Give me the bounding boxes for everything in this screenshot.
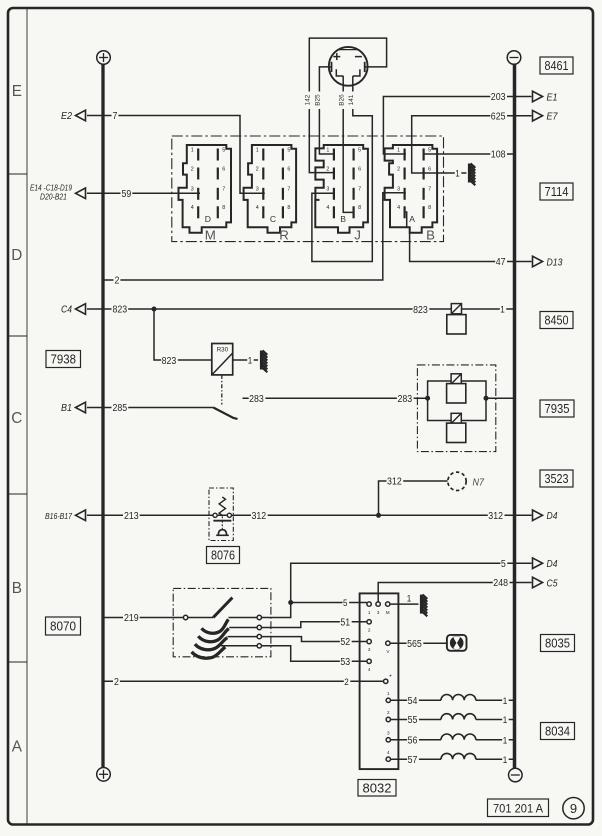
- heater control unit 8032: [360, 593, 399, 769]
- svg-text:4: 4: [191, 205, 194, 211]
- svg-text:M: M: [205, 227, 216, 242]
- svg-text:8461: 8461: [545, 58, 569, 73]
- lamp unit (top circle with + and -): [329, 47, 368, 86]
- wire B25 (from + contact to J pin 1): [319, 67, 335, 154]
- switch 8070 output contacts: [257, 615, 261, 619]
- svg-text:8076: 8076: [211, 548, 235, 563]
- terminal arrow C5: [533, 577, 543, 588]
- wire 47 : connector B to D13: [410, 233, 532, 262]
- svg-text:312: 312: [387, 477, 402, 488]
- svg-text:51: 51: [340, 617, 350, 628]
- svg-text:7: 7: [428, 187, 431, 193]
- svg-text:3: 3: [256, 187, 259, 193]
- svg-text:1: 1: [503, 696, 508, 706]
- label B26: [340, 92, 347, 110]
- svg-text:5: 5: [222, 147, 225, 153]
- svg-text:57: 57: [408, 755, 418, 766]
- wire 53: [262, 646, 367, 662]
- ground at 8032: [420, 595, 423, 614]
- svg-text:2: 2: [397, 166, 400, 172]
- svg-text:2: 2: [256, 166, 259, 172]
- terminal arrow E1: [533, 91, 543, 102]
- terminal arrow E7: [533, 110, 543, 121]
- svg-text:5: 5: [358, 147, 361, 153]
- svg-text:8: 8: [428, 205, 431, 211]
- wire : 7935 to bus: [486, 397, 515, 399]
- ref box 8461: [540, 57, 573, 74]
- svg-text:N7: N7: [473, 478, 485, 489]
- 8032 pin V: [386, 641, 390, 645]
- junction on 312: [376, 513, 381, 518]
- svg-text:B1: B1: [61, 403, 72, 414]
- diagram number box: [488, 799, 549, 817]
- svg-text:2: 2: [368, 628, 371, 633]
- svg-text:R: R: [279, 227, 289, 242]
- svg-text:6: 6: [287, 166, 290, 172]
- terminal arrow C4: [76, 304, 86, 315]
- svg-text:E2: E2: [61, 111, 72, 122]
- svg-text:565: 565: [407, 639, 422, 650]
- svg-text:8: 8: [287, 205, 290, 211]
- svg-text:J: J: [354, 227, 361, 242]
- wire 219 : bus to switch 8070: [103, 617, 183, 619]
- terminal arrow D4 (wire 312): [533, 510, 543, 521]
- terminal arrow E2: [76, 110, 86, 121]
- svg-text:D20-B21: D20-B21: [40, 192, 67, 201]
- svg-text:R30: R30: [217, 347, 229, 354]
- relay actuating link (dash-dot): [221, 375, 223, 405]
- ground at connector B pin 6: [468, 164, 471, 183]
- svg-text:3: 3: [326, 187, 329, 193]
- svg-text:108: 108: [491, 150, 506, 161]
- supply bus (left, +): [101, 64, 104, 768]
- svg-text:D: D: [205, 214, 211, 224]
- svg-text:7: 7: [358, 187, 361, 193]
- svg-text:7: 7: [287, 187, 290, 193]
- svg-text:3: 3: [191, 187, 194, 193]
- svg-text:8: 8: [222, 205, 225, 211]
- svg-text:312: 312: [251, 511, 266, 522]
- ref box 8034: [541, 723, 575, 740]
- svg-text:56: 56: [408, 736, 418, 747]
- svg-text:1: 1: [407, 593, 412, 603]
- terminal arrow B16-B17: [76, 510, 86, 521]
- wire 2 : bus to unit 8032: [103, 680, 384, 682]
- 7935 internal loop: [428, 381, 486, 421]
- svg-text:1: 1: [397, 147, 400, 153]
- 8032 left pins: [367, 620, 371, 624]
- svg-text:53: 53: [340, 657, 350, 668]
- svg-text:203: 203: [491, 92, 506, 103]
- wire 283 : contact to lamp cluster 7935: [243, 397, 428, 399]
- svg-text:6: 6: [428, 166, 431, 172]
- svg-text:1: 1: [326, 147, 329, 153]
- battery + terminal top: [97, 51, 111, 65]
- ground at relay: [260, 351, 263, 370]
- switch 8070 contact arcs: [202, 619, 229, 633]
- svg-text:3523: 3523: [545, 471, 569, 486]
- svg-text:4: 4: [326, 205, 329, 211]
- wire 108 : connector B pin 5 to bus: [424, 153, 514, 155]
- svg-text:5: 5: [287, 147, 290, 153]
- lamp 8450 (panel light): [451, 304, 461, 314]
- svg-text:7938: 7938: [51, 352, 77, 367]
- svg-text:C: C: [11, 410, 22, 427]
- svg-text:9: 9: [570, 801, 577, 816]
- svg-text:701 201 A: 701 201 A: [493, 801, 543, 815]
- svg-text:285: 285: [113, 403, 128, 414]
- ref box 8450: [540, 312, 573, 329]
- svg-text:4: 4: [256, 205, 259, 211]
- ref box 3523: [540, 470, 573, 487]
- resistor 8076 (ballast with thermal switch): [209, 488, 233, 541]
- svg-text:7: 7: [222, 187, 225, 193]
- blower motor symbol: [447, 635, 467, 651]
- svg-text:6: 6: [222, 166, 225, 172]
- svg-text:6: 6: [358, 166, 361, 172]
- svg-text:3: 3: [368, 647, 371, 652]
- svg-text:+: +: [389, 674, 392, 680]
- svg-text:3: 3: [387, 731, 390, 736]
- lamp cluster 7935 boundary: [417, 365, 495, 452]
- svg-text:2: 2: [326, 166, 329, 172]
- svg-text:3: 3: [397, 187, 400, 193]
- label B25: [316, 92, 323, 110]
- wire 142 (loop from - contact to J pin 2): [309, 38, 386, 173]
- svg-text:E7: E7: [547, 112, 558, 123]
- svg-text:A: A: [409, 214, 415, 224]
- wire 7 : E2 to connector R pin 3: [87, 116, 265, 194]
- svg-text:283: 283: [397, 394, 412, 405]
- svg-text:5: 5: [501, 559, 506, 570]
- svg-text:2: 2: [387, 710, 390, 715]
- svg-text:312: 312: [488, 511, 503, 522]
- connector N7 (dashed circle): [448, 472, 466, 490]
- svg-text:2: 2: [191, 166, 194, 172]
- svg-text:1: 1: [503, 715, 508, 725]
- svg-text:M: M: [386, 610, 390, 615]
- ref box 8035: [541, 635, 575, 652]
- wire 5 : switch to D4 and unit 8032: [262, 563, 532, 617]
- ref box 7114: [540, 183, 573, 200]
- svg-text:248: 248: [493, 578, 508, 589]
- wire 203 : connector B pin 1 to E1: [383, 97, 531, 155]
- wire 51: [262, 622, 367, 628]
- ref box 8070: [46, 617, 81, 635]
- connector M (housing D): [179, 145, 232, 233]
- wire 823 branch to relay R30: [154, 309, 212, 360]
- svg-text:E: E: [12, 83, 22, 100]
- svg-text:2: 2: [344, 677, 349, 687]
- switch lever (relay contact): [213, 408, 237, 420]
- wire 823 : C4 to bus and lighting rheostat: [87, 308, 515, 310]
- svg-text:1: 1: [368, 610, 371, 615]
- connector B pin 4 link to tab: [405, 212, 407, 227]
- svg-text:823: 823: [113, 305, 128, 316]
- battery - terminal top: [507, 51, 521, 65]
- svg-text:4: 4: [368, 667, 371, 672]
- relay R30: [212, 344, 233, 375]
- svg-text:8070: 8070: [50, 619, 76, 634]
- wire 52: [262, 637, 367, 642]
- svg-text:1: 1: [455, 169, 460, 179]
- svg-text:7: 7: [113, 111, 118, 122]
- svg-text:D13: D13: [547, 257, 563, 268]
- svg-text:283: 283: [249, 394, 264, 405]
- svg-text:7935: 7935: [545, 401, 570, 416]
- connector B (housing A): [385, 145, 438, 233]
- svg-text:1: 1: [387, 691, 390, 696]
- svg-text:C: C: [270, 214, 276, 224]
- wire 141 (to J pin 3 via loop): [312, 76, 372, 262]
- terminal arrow B1: [76, 402, 86, 413]
- junction on 823: [152, 307, 157, 312]
- connector J (housing B): [315, 145, 368, 233]
- wire 248 : unit 8032 to C5: [378, 583, 531, 602]
- 8032 pins top row: [367, 602, 371, 606]
- svg-text:1: 1: [503, 735, 508, 745]
- wire 5 to 8032 pin 1: [291, 602, 367, 604]
- ref box 8032: [358, 780, 396, 797]
- ref box 7935: [540, 400, 574, 417]
- svg-text:142: 142: [304, 94, 311, 105]
- connector assembly boundary (dash-dot): [172, 136, 444, 242]
- svg-text:B25: B25: [315, 94, 322, 106]
- svg-text:47: 47: [496, 257, 506, 268]
- svg-text:C5: C5: [547, 578, 558, 589]
- svg-text:D: D: [11, 247, 22, 264]
- switch 8070 boundary: [173, 588, 271, 656]
- svg-text:4: 4: [387, 750, 390, 755]
- svg-text:823: 823: [413, 305, 428, 316]
- lamp 1 of 7935: [451, 374, 461, 384]
- terminal arrow E14-C18-D19/D20-B21: [76, 188, 86, 199]
- svg-text:E1: E1: [547, 92, 558, 103]
- svg-text:59: 59: [122, 189, 132, 200]
- svg-text:8035: 8035: [545, 636, 570, 651]
- svg-text:1: 1: [500, 305, 505, 315]
- svg-text:B26: B26: [339, 94, 346, 106]
- svg-text:213: 213: [124, 511, 139, 522]
- zone ticks: [8, 173, 27, 175]
- wire 625 : connector B pin 6 to E7: [412, 116, 532, 173]
- svg-text:2: 2: [115, 276, 120, 287]
- svg-text:5: 5: [343, 598, 348, 608]
- switch 8070 input contact: [183, 615, 187, 619]
- battery - terminal bottom: [509, 768, 523, 782]
- svg-text:823: 823: [162, 356, 177, 367]
- svg-text:8034: 8034: [545, 724, 570, 739]
- svg-text:2: 2: [114, 677, 119, 688]
- wire 312 branch to N7: [379, 481, 448, 515]
- label 142: [306, 92, 313, 110]
- page number circle: [563, 798, 584, 819]
- wire 2 : bus to connector B pin 3: [103, 193, 406, 280]
- svg-text:1: 1: [256, 147, 259, 153]
- wire 1 : 8032 to ground: [390, 603, 419, 605]
- svg-text:52: 52: [340, 637, 350, 648]
- svg-text:8450: 8450: [545, 313, 569, 328]
- connector R (housing C): [244, 145, 297, 233]
- wire 1 : relay to ground: [233, 359, 258, 361]
- 8032 pin + (wire 2): [384, 679, 388, 683]
- switch 8070 lever: [188, 617, 213, 619]
- svg-text:219: 219: [124, 613, 139, 624]
- svg-text:1: 1: [191, 147, 194, 153]
- svg-text:7114: 7114: [545, 184, 569, 199]
- wire 59 : E14... to connector M pin 3: [87, 192, 200, 194]
- wire 285 : B1 to switch contact: [87, 407, 213, 409]
- wire 213/312 : B16-B17 through resistor 8076 to D4: [87, 514, 532, 516]
- terminal arrow D4 (wire 5): [533, 558, 543, 569]
- svg-text:A: A: [12, 738, 23, 755]
- label 141: [349, 92, 356, 110]
- battery + terminal bottom: [97, 768, 111, 782]
- svg-text:8032: 8032: [363, 780, 392, 795]
- wire 565 : to blower motor: [390, 642, 446, 644]
- zone strip line: [26, 9, 28, 824]
- svg-text:141: 141: [348, 94, 355, 105]
- svg-text:4: 4: [397, 205, 400, 211]
- svg-text:1: 1: [503, 755, 508, 765]
- svg-text:B: B: [12, 580, 22, 597]
- svg-text:B: B: [340, 214, 346, 224]
- ref box 8076: [207, 547, 240, 564]
- wire B26 (to J pin 8): [343, 76, 354, 212]
- terminal arrow D13: [533, 256, 543, 267]
- junction on wire 5: [288, 600, 293, 605]
- svg-text:C4: C4: [61, 305, 72, 316]
- svg-text:D4: D4: [547, 511, 558, 522]
- 8032 right pins with resistor coils 54-57: [386, 698, 390, 702]
- svg-text:54: 54: [408, 696, 418, 707]
- svg-text:B16-B17: B16-B17: [45, 512, 72, 521]
- svg-text:3: 3: [377, 610, 380, 615]
- svg-text:55: 55: [408, 715, 418, 726]
- lamp 2 of 7935: [451, 413, 461, 423]
- svg-text:1: 1: [248, 356, 253, 366]
- svg-text:B: B: [426, 227, 435, 242]
- svg-text:D4: D4: [547, 559, 558, 570]
- svg-text:8: 8: [358, 205, 361, 211]
- svg-text:5: 5: [428, 147, 431, 153]
- ground bus (right, -): [513, 64, 517, 770]
- svg-text:625: 625: [491, 111, 506, 122]
- svg-text:E14 -C18-D19: E14 -C18-D19: [30, 184, 72, 193]
- ref box 7938: [46, 351, 81, 368]
